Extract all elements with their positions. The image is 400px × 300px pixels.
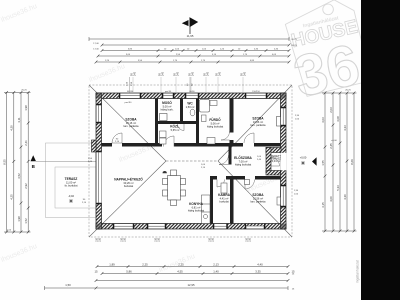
wc FURDO (202, 115, 207, 122)
svg-text:60/60: 60/60 (189, 91, 195, 93)
svg-text:1,55: 1,55 (321, 160, 325, 166)
interior wall FEDETT TERASZ (266, 148, 281, 153)
svg-text:2,41: 2,41 (24, 140, 28, 146)
bottom dimension rows (45, 267, 289, 291)
svg-text:lam. parketta: lam. parketta (251, 200, 267, 204)
north flag symbol (183, 18, 197, 34)
black side bar (361, 0, 400, 300)
svg-text:5,86: 5,86 (126, 269, 132, 273)
svg-text:2,45: 2,45 (329, 143, 333, 149)
section line B (36, 160, 96, 162)
window end nibs top/bottom walls (96, 93, 286, 229)
interior wall MOSO/WC bottom (158, 121, 199, 124)
svg-text:lam. parketta: lam. parketta (124, 124, 140, 128)
svg-text:150/150: 150/150 (252, 91, 260, 93)
svg-text:3,15: 3,15 (321, 202, 325, 208)
roof hip lines (89, 85, 292, 237)
svg-text:2,13: 2,13 (213, 262, 219, 266)
bottom dim numbers (65, 262, 295, 290)
svg-text:KÖZL.: KÖZL. (170, 124, 180, 129)
svg-text:4,55: 4,55 (177, 269, 183, 273)
section marker B triangle (31, 155, 37, 161)
cabinets KOZL (160, 131, 167, 138)
svg-text:5,65 m²: 5,65 m² (171, 128, 180, 132)
window top wall MOSO (163, 93, 173, 99)
wardrobe SZOBA3 (245, 180, 250, 185)
svg-text:4,30: 4,30 (10, 125, 14, 131)
svg-text:4,33: 4,33 (343, 125, 347, 131)
svg-text:17,40: 17,40 (93, 49, 99, 51)
right dimension columns (322, 93, 357, 231)
svg-text:5,33: 5,33 (336, 185, 340, 191)
section marker east triangle (312, 157, 317, 166)
svg-text:1,52: 1,52 (24, 218, 28, 224)
bathtub FURDO (200, 100, 210, 113)
svg-text:8,69: 8,69 (350, 159, 354, 165)
window top wall FURDO (186, 93, 198, 99)
top dimension row 1 overall (89, 37, 289, 62)
svg-text:hideg burkolat: hideg burkolat (235, 163, 252, 167)
interior wall MOSO-WC (180, 99, 183, 125)
wall pillar left (92, 140, 97, 152)
svg-text:lam. parketta: lam. parketta (251, 123, 267, 127)
svg-text:150: 150 (212, 237, 215, 242)
wc bowl WC (190, 109, 195, 116)
interior wall FURDO-SZOBA2 (230, 99, 234, 133)
window right wall SZOBA3 (281, 186, 287, 206)
watermark HOUSE 36 logo (280, 0, 374, 110)
svg-text:pod 90: pod 90 (125, 102, 132, 104)
svg-text:fa. burkolat: fa. burkolat (65, 184, 78, 188)
svg-text:1,89: 1,89 (109, 262, 115, 266)
bottom window size labels (vertical) (95, 237, 251, 242)
svg-text:pod 90: pod 90 (165, 91, 172, 93)
svg-text:240: 240 (207, 71, 210, 76)
window bottom wall 2 (148, 224, 165, 230)
svg-text:3,52: 3,52 (17, 173, 21, 179)
interior wall SZOBA1-MOSO (155, 99, 158, 144)
svg-text:ingatlanhalozat: ingatlanhalozat (356, 260, 360, 283)
interior wall corridor horizontal (102, 99, 282, 224)
window right wall SZOBA2 (281, 108, 287, 125)
left dim numbers (rotated) (3, 105, 29, 224)
svg-text:3,35: 3,35 (255, 269, 261, 273)
svg-text:2,25: 2,25 (178, 262, 184, 266)
svg-text:3,11: 3,11 (17, 117, 21, 123)
top dim ticks (95, 44, 291, 64)
svg-text:2,92: 2,92 (24, 183, 28, 189)
kitchen counter (202, 195, 211, 224)
svg-text:150: 150 (158, 237, 161, 242)
svg-text:3,08: 3,08 (336, 116, 340, 122)
kamra shelf (221, 183, 227, 193)
svg-text:1,50 m²: 1,50 m² (186, 105, 195, 109)
interior wall ELOSZOBA west (229, 147, 232, 165)
entry opening right wall (280, 153, 286, 171)
bottom dim ticks (95, 265, 290, 289)
right dim numbers (rotated) (321, 107, 354, 208)
svg-text:1,50: 1,50 (65, 283, 71, 287)
exterior wall top (96, 93, 286, 99)
svg-text:240: 240 (177, 71, 180, 76)
svg-text:SZOBA: SZOBA (125, 118, 137, 122)
left dimension columns (4, 93, 31, 233)
svg-text:1,98: 1,98 (24, 105, 28, 111)
tiny labels above top wall (127, 91, 261, 93)
svg-text:12,95: 12,95 (188, 283, 195, 287)
svg-text:4,30: 4,30 (343, 194, 347, 200)
svg-text:15: 15 (94, 269, 98, 273)
terrace door left wall (96, 152, 102, 203)
svg-text:hideg burk.: hideg burk. (161, 108, 174, 112)
exterior wall right (281, 93, 287, 229)
right dim ticks (324, 92, 356, 233)
svg-text:26,25: 26,25 (345, 90, 351, 92)
svg-text:1,98: 1,98 (17, 216, 21, 222)
svg-text:26,25: 26,25 (21, 90, 27, 92)
svg-text:NAPPALI+ÉTKEZŐ: NAPPALI+ÉTKEZŐ (114, 177, 143, 182)
svg-text:SZOBA: SZOBA (252, 193, 264, 197)
interior wall eloszoba bottom / kamra top (210, 176, 217, 180)
svg-text:150: 150 (249, 237, 252, 242)
svg-text:240: 240 (192, 71, 195, 76)
svg-text:8,55: 8,55 (3, 159, 7, 165)
svg-text:burkolat: burkolat (124, 184, 134, 188)
svg-text:FÜRDŐ: FÜRDŐ (209, 117, 221, 122)
svg-text:3,03: 3,03 (321, 117, 325, 123)
svg-text:11,95: 11,95 (187, 34, 194, 38)
svg-text:2,03: 2,03 (329, 107, 333, 113)
svg-text:4,00: 4,00 (329, 196, 333, 202)
exterior wall bottom (96, 224, 286, 230)
interior wall KONYHA-KAMRA (210, 176, 213, 224)
svg-text:-0,02: -0,02 (68, 194, 74, 198)
window bottom wall SZOBA3 (246, 226, 264, 229)
svg-text:+0,00: +0,00 (300, 156, 307, 160)
svg-text:240: 240 (134, 71, 137, 76)
svg-text:150: 150 (99, 237, 102, 242)
left dim ticks (5, 91, 29, 233)
svg-text:4,40: 4,40 (257, 262, 263, 266)
exterior wall left (96, 93, 102, 229)
svg-text:150: 150 (124, 237, 127, 242)
window bottom wall kitchen (214, 224, 227, 230)
washer MOSO (160, 114, 168, 121)
window bottom wall 1 (114, 224, 133, 230)
interior wall KAMRA-SZOBA3 (230, 176, 234, 224)
level blob nappali (163, 171, 167, 173)
sink FURDO (210, 101, 217, 106)
svg-text:SZOBA: SZOBA (252, 117, 264, 121)
top window size labels (vertical) (130, 71, 246, 92)
exterior wall corner blocks (96, 93, 286, 229)
svg-text:240: 240 (162, 71, 165, 76)
interior window dim marks above top wall (130, 77, 191, 93)
door arcs (164, 124, 280, 189)
svg-text:26,25: 26,25 (291, 39, 297, 41)
window top wall SZOBA2 (246, 93, 266, 99)
svg-text:4,25: 4,25 (10, 194, 14, 200)
interior wall WC-FURDO (196, 99, 199, 147)
window top wall SZOBA1 (120, 93, 140, 99)
terrace roof projection outline (46, 143, 97, 218)
terrace outline (55, 167, 96, 208)
dining table (163, 170, 186, 206)
svg-text:MOSÓ: MOSÓ (162, 100, 172, 105)
svg-text:240: 240 (219, 71, 222, 76)
svg-text:2,25: 2,25 (142, 262, 148, 266)
svg-text:5,04 m²: 5,04 m² (272, 159, 281, 163)
cabinet SZOBA1 (112, 133, 122, 143)
wardrobe SZOBA2 (277, 117, 281, 127)
svg-text:hideg burkolat: hideg burkolat (188, 209, 205, 213)
svg-text:±0,00: ±0,00 (331, 140, 337, 142)
window left wall SZOBA1 (96, 105, 102, 122)
svg-text:17,40: 17,40 (93, 43, 99, 45)
svg-text:burkolat: burkolat (219, 200, 229, 204)
svg-text:240: 240 (244, 71, 247, 76)
roof overhang dashed outline (89, 85, 292, 237)
svg-text:26,25: 26,25 (291, 45, 297, 47)
svg-text:hideg burkolat: hideg burkolat (207, 125, 224, 129)
svg-text:90/150: 90/150 (127, 91, 134, 93)
svg-text:ELŐSZOBA: ELŐSZOBA (234, 155, 252, 160)
svg-text:1,40: 1,40 (213, 269, 219, 273)
